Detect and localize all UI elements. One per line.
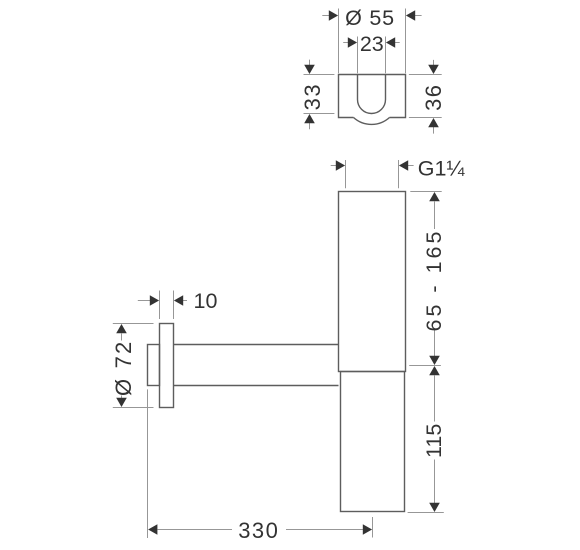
svg-text:33: 33 [300, 83, 325, 110]
svg-text:115: 115 [422, 424, 446, 458]
svg-text:36: 36 [421, 83, 446, 110]
svg-text:23: 23 [360, 32, 384, 56]
dimension 33: extension lines [304, 75, 335, 114]
main view: trap body lower section [341, 372, 405, 512]
dimension 65-165: middle extension line [409, 365, 441, 367]
dimension 36: extension lines [409, 75, 442, 118]
main view: horizontal pipe [174, 345, 339, 386]
top view: wall bracket outline [339, 75, 406, 125]
dimension G1 1/4: left arrow [331, 165, 338, 167]
dimension G1 1/4: extension lines [346, 160, 399, 188]
dimension O55: right arrow [414, 15, 421, 17]
dimension 65-165: bottom arrow [429, 356, 440, 365]
dimension 23: right arrow [393, 42, 400, 44]
dimension 65-165: top arrow [429, 192, 440, 201]
dimension 115: dimension line segments [434, 375, 436, 503]
dimension 36: top arrow [433, 60, 435, 66]
svg-text:65 - 165: 65 - 165 [422, 229, 446, 332]
dimension O55: extension lines [339, 9, 406, 74]
dimension 330: right extension line [372, 517, 374, 538]
svg-text:Ø 55: Ø 55 [345, 6, 395, 30]
svg-text:10: 10 [194, 289, 218, 313]
dimension O72: bottom arrow [116, 398, 127, 407]
dimension 115: bottom arrow [429, 503, 440, 512]
dimension 10: left arrow [138, 300, 150, 302]
dimension 65-165: top extension line [410, 191, 441, 193]
dimension 330: left arrow [148, 524, 157, 535]
main view: trap body upper section [339, 192, 406, 372]
dimension 10: right arrow [181, 300, 187, 302]
main view: wall flange [160, 324, 174, 408]
dimension 330: dimension line segments [157, 529, 363, 531]
dimension 33: bottom arrow [309, 123, 311, 130]
dimension O55: left arrow [322, 15, 330, 17]
dimension 65-165: dimension line segments [434, 201, 436, 356]
dimension 330: right arrow [363, 524, 372, 535]
main view: wall-side pipe stub [148, 345, 160, 386]
dimension G1 1/4: right arrow [407, 165, 414, 167]
dimension 23: extension lines [358, 37, 386, 74]
svg-text:G1¼: G1¼ [418, 156, 466, 180]
dimension 115: bottom extension line [408, 512, 444, 514]
top view: U-shaped cutout [358, 75, 386, 114]
dimension O72: top arrow [116, 324, 127, 333]
dimension 330: left extension line [147, 389, 149, 538]
dimension 23: left arrow [343, 42, 350, 44]
dimension O72: dimension line segments [121, 333, 123, 398]
dimension 115: top arrow [429, 366, 440, 375]
dimension 10: extension lines [160, 291, 174, 320]
svg-text:330: 330 [238, 518, 279, 543]
dimension 33: top arrow [309, 60, 311, 66]
svg-text:Ø 72: Ø 72 [111, 340, 136, 397]
dimension O72: extension lines [113, 324, 154, 408]
dimension 36: bottom arrow [433, 127, 435, 134]
